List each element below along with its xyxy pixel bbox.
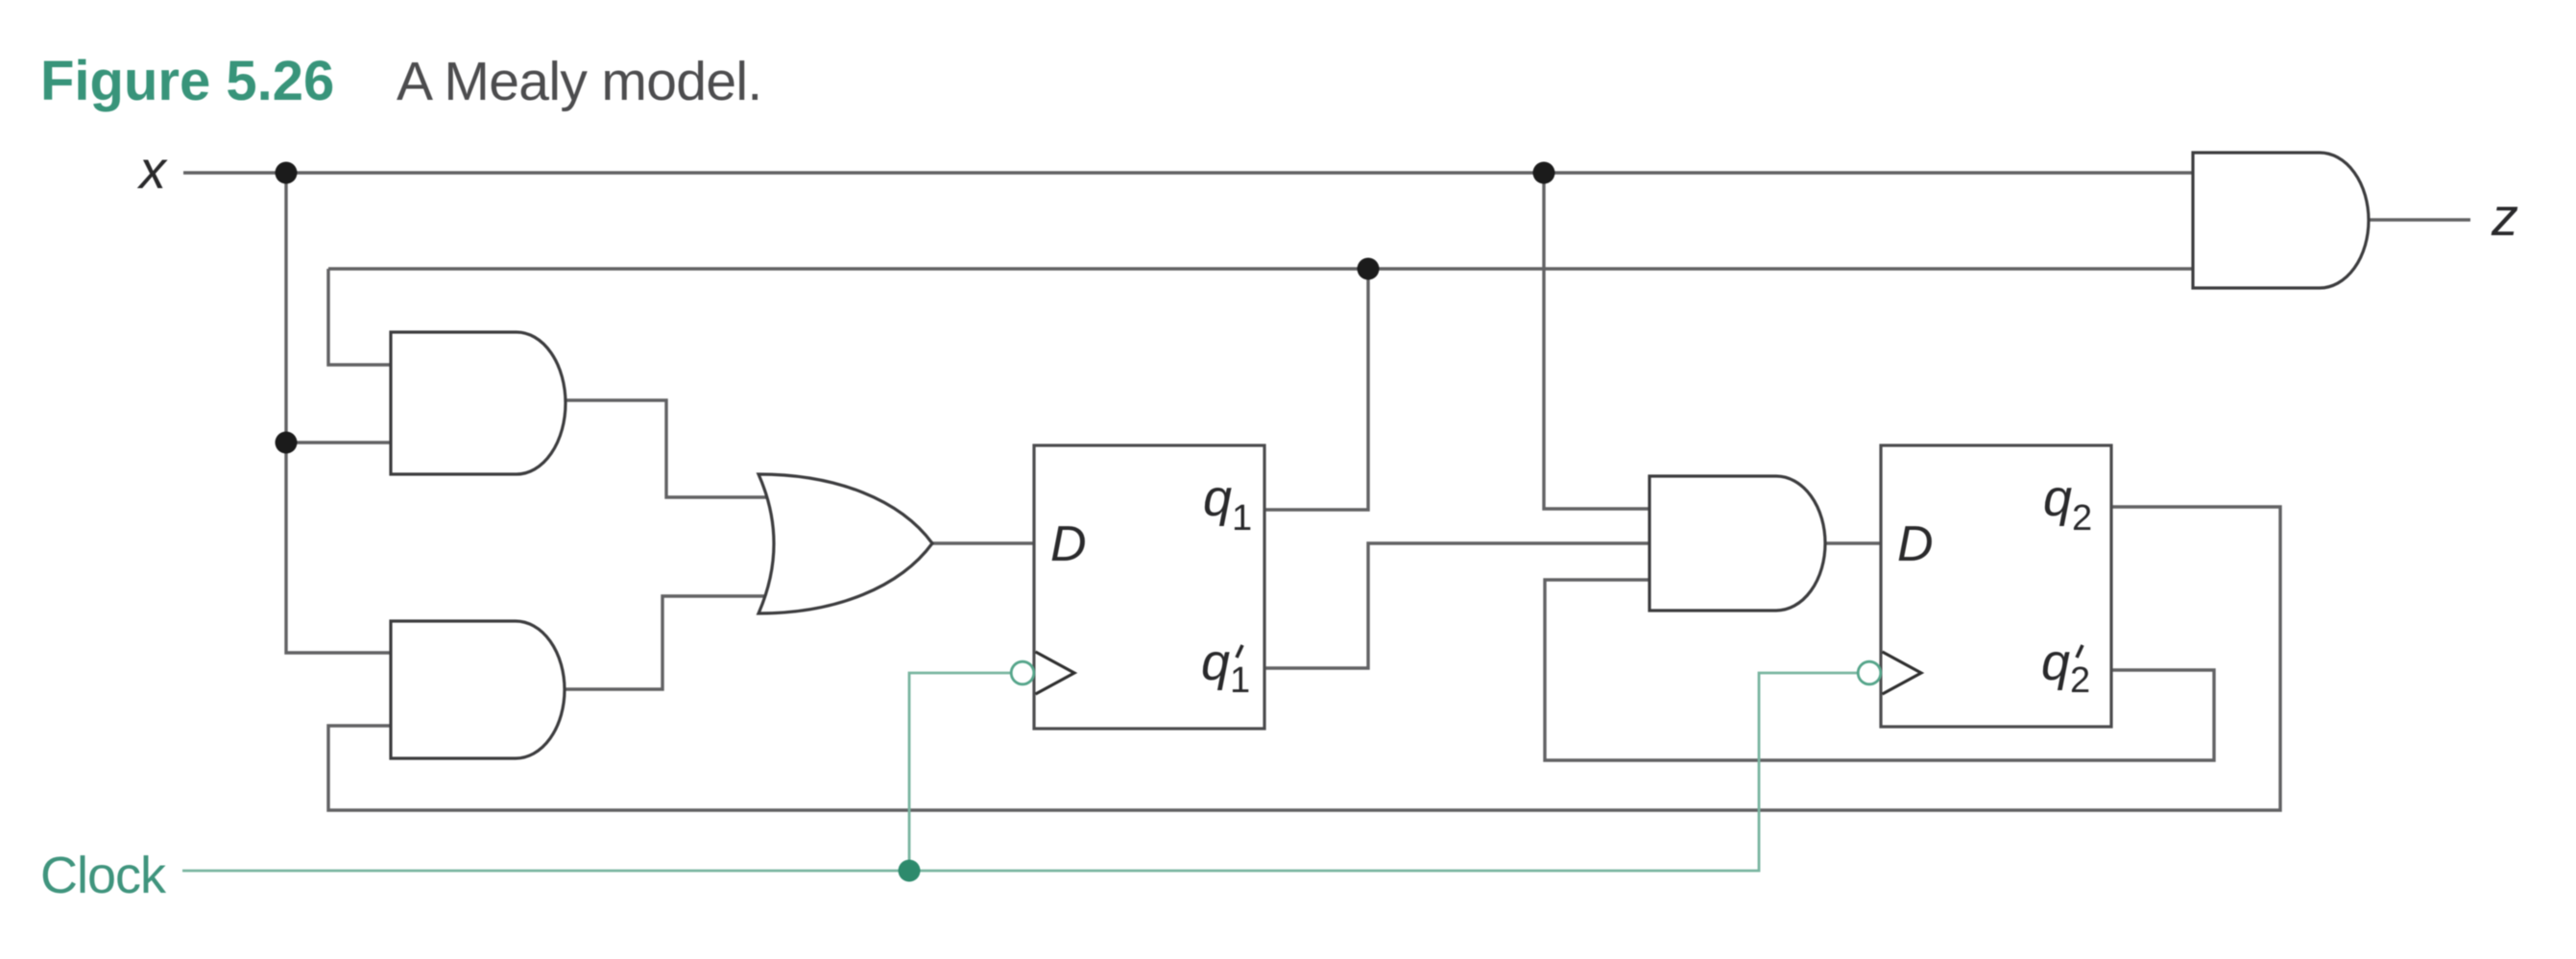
- OR gate O1: [758, 474, 932, 613]
- FF2 clock inversion bubble: [1858, 661, 1881, 684]
- AND gate A2 (bottom left): [391, 621, 565, 758]
- wire: AND A1 output to OR O1 top input: [562, 400, 774, 497]
- wire: q1 rail left leg down into AND A1 top input: [328, 269, 393, 365]
- wire: x branch riser down to AND A3 top input: [1544, 173, 1651, 509]
- node: x fanout junction on top rail: [276, 162, 298, 184]
- wire: x branch into AND A1 bottom input: [286, 441, 393, 444]
- wire: q1 feedback rail (y=280) to AND A4 bottom input: [328, 267, 2193, 270]
- wire: FF1 q1' output to AND A3 middle input: [1264, 543, 1651, 668]
- node: x branch junction to AND A3: [1533, 162, 1555, 184]
- wire: AND A4 output to z: [2367, 218, 2470, 221]
- prime mark of q1': [1237, 645, 1242, 658]
- AND gate A4 (output, top right): [2193, 153, 2369, 288]
- svg-text:A Mealy model.: A Mealy model.: [397, 51, 762, 112]
- wire: AND A2 output to OR O1 bottom input: [562, 596, 774, 689]
- D flip-flop FF2 body: [1881, 445, 2111, 727]
- svg-text:Figure 5.26: Figure 5.26: [40, 50, 334, 112]
- svg-text:D: D: [1897, 516, 1934, 572]
- svg-text:Clock: Clock: [40, 847, 167, 904]
- FF1 clock edge triangle: [1036, 652, 1075, 694]
- wire: x vertical riser down to AND A2 top input: [286, 173, 393, 653]
- wire: OR O1 output to FF1 D input: [929, 541, 1036, 544]
- svg-text:x: x: [136, 139, 168, 200]
- node: x branch junction to AND A1: [276, 432, 298, 454]
- AND gate A3 (middle): [1649, 476, 1825, 611]
- wire: input x top rail to AND A4 top input: [183, 171, 2193, 174]
- svg-text:z: z: [2491, 186, 2518, 247]
- wire: AND A3 output to FF2 D input: [1822, 541, 1883, 544]
- wire: FF2 q2' feedback to AND A3 bottom input: [1545, 580, 2214, 760]
- wire: clock branch to FF1 clock input: [909, 673, 1011, 871]
- wire: FF2 q2 feedback to AND A2 bottom input: [328, 507, 2280, 810]
- wire: clock rail (green): [182, 673, 1858, 871]
- prime mark of q2': [2077, 645, 2082, 658]
- AND gate A1 (top left): [391, 332, 566, 474]
- D flip-flop FF1 body: [1034, 445, 1264, 729]
- FF2 clock edge triangle: [1883, 652, 1922, 694]
- node: q1 junction on feedback rail: [1358, 258, 1380, 280]
- FF1 clock inversion bubble: [1011, 661, 1034, 684]
- wire: FF1 q1 output riser up to q1 rail: [1264, 269, 1368, 510]
- node: clock fanout junction (green): [899, 860, 921, 882]
- svg-text:D: D: [1050, 516, 1087, 572]
